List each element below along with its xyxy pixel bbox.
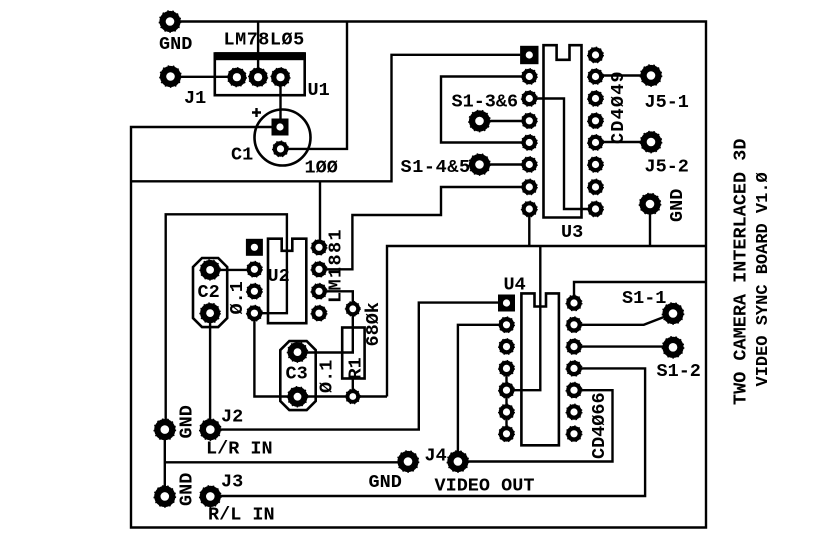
svg-text:S1-4&5: S1-4&5 (401, 157, 471, 178)
svg-text:U4: U4 (504, 275, 526, 296)
svg-text:CD4Ø66: CD4Ø66 (589, 392, 610, 459)
svg-text:VIDEO OUT: VIDEO OUT (435, 476, 535, 497)
svg-text:J4: J4 (425, 446, 447, 467)
svg-text:Ø.1: Ø.1 (317, 360, 338, 393)
svg-text:J1: J1 (184, 88, 206, 109)
svg-text:CD4Ø49: CD4Ø49 (608, 70, 629, 144)
svg-text:U2: U2 (268, 266, 290, 287)
svg-text:S1-3&6: S1-3&6 (452, 92, 519, 113)
svg-text:L/R IN: L/R IN (206, 439, 273, 460)
svg-text:GND: GND (369, 472, 402, 493)
svg-text:GND: GND (177, 405, 198, 438)
svg-text:GND: GND (667, 189, 688, 222)
svg-text:U3: U3 (561, 222, 583, 243)
svg-text:J2: J2 (221, 407, 243, 428)
svg-text:TWO CAMERA INTERLACED 3D: TWO CAMERA INTERLACED 3D (730, 139, 751, 405)
svg-text:GND: GND (177, 473, 198, 506)
svg-text:GND: GND (159, 34, 192, 55)
svg-text:C2: C2 (198, 282, 220, 303)
svg-text:J5-1: J5-1 (645, 92, 689, 113)
svg-text:J3: J3 (221, 472, 243, 493)
svg-text:R1: R1 (346, 357, 367, 379)
svg-text:68Øk: 68Øk (363, 302, 384, 346)
svg-text:LM78LØ5: LM78LØ5 (224, 30, 305, 51)
svg-text:C1: C1 (231, 145, 253, 166)
svg-text:S1-2: S1-2 (657, 361, 701, 382)
svg-text:LM1881: LM1881 (326, 228, 347, 303)
svg-text:J5-2: J5-2 (645, 157, 689, 178)
svg-text:C3: C3 (286, 364, 308, 385)
svg-text:VIDEO SYNC BOARD V1.Ø: VIDEO SYNC BOARD V1.Ø (754, 172, 773, 386)
svg-text:U1: U1 (308, 80, 330, 101)
svg-text:R/L IN: R/L IN (208, 505, 275, 526)
svg-text:1ØØ: 1ØØ (305, 158, 338, 179)
svg-text:Ø.1: Ø.1 (227, 281, 248, 314)
svg-text:S1-1: S1-1 (622, 288, 666, 309)
